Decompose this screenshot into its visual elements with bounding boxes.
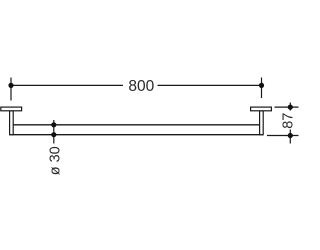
svg-text:800: 800 xyxy=(128,78,154,95)
left wall plate xyxy=(1,107,22,111)
right wall plate xyxy=(251,107,272,111)
dimension line 800 (left segment) xyxy=(11,84,123,86)
dimension 800 right dot terminator xyxy=(259,83,264,88)
svg-text:87: 87 xyxy=(280,113,296,129)
dimension 87 bottom extension line xyxy=(267,135,299,137)
svg-text:ø 30: ø 30 xyxy=(47,146,63,175)
towel bar top line xyxy=(13,124,259,126)
dimension 87 top extension line xyxy=(275,106,299,108)
right post xyxy=(260,111,264,135)
dimension o30 bottom dot xyxy=(51,132,56,137)
dimension 87 top dot xyxy=(288,105,293,110)
dimension 800 left dot terminator xyxy=(8,83,13,88)
dimension 800 right extension tick xyxy=(261,78,263,99)
dimension 87 bottom dot xyxy=(288,133,293,138)
dimension 87 vertical line lower segment xyxy=(289,130,291,144)
dimension 87 vertical line upper segment xyxy=(289,103,291,111)
left post xyxy=(10,111,14,135)
dimension o30 top dot xyxy=(51,122,56,127)
dimension line 800 (right segment) xyxy=(158,84,262,86)
towel bar bottom line xyxy=(10,134,264,136)
dimension 800 left extension tick xyxy=(10,78,12,101)
dimension line o30 vertical xyxy=(53,120,55,144)
